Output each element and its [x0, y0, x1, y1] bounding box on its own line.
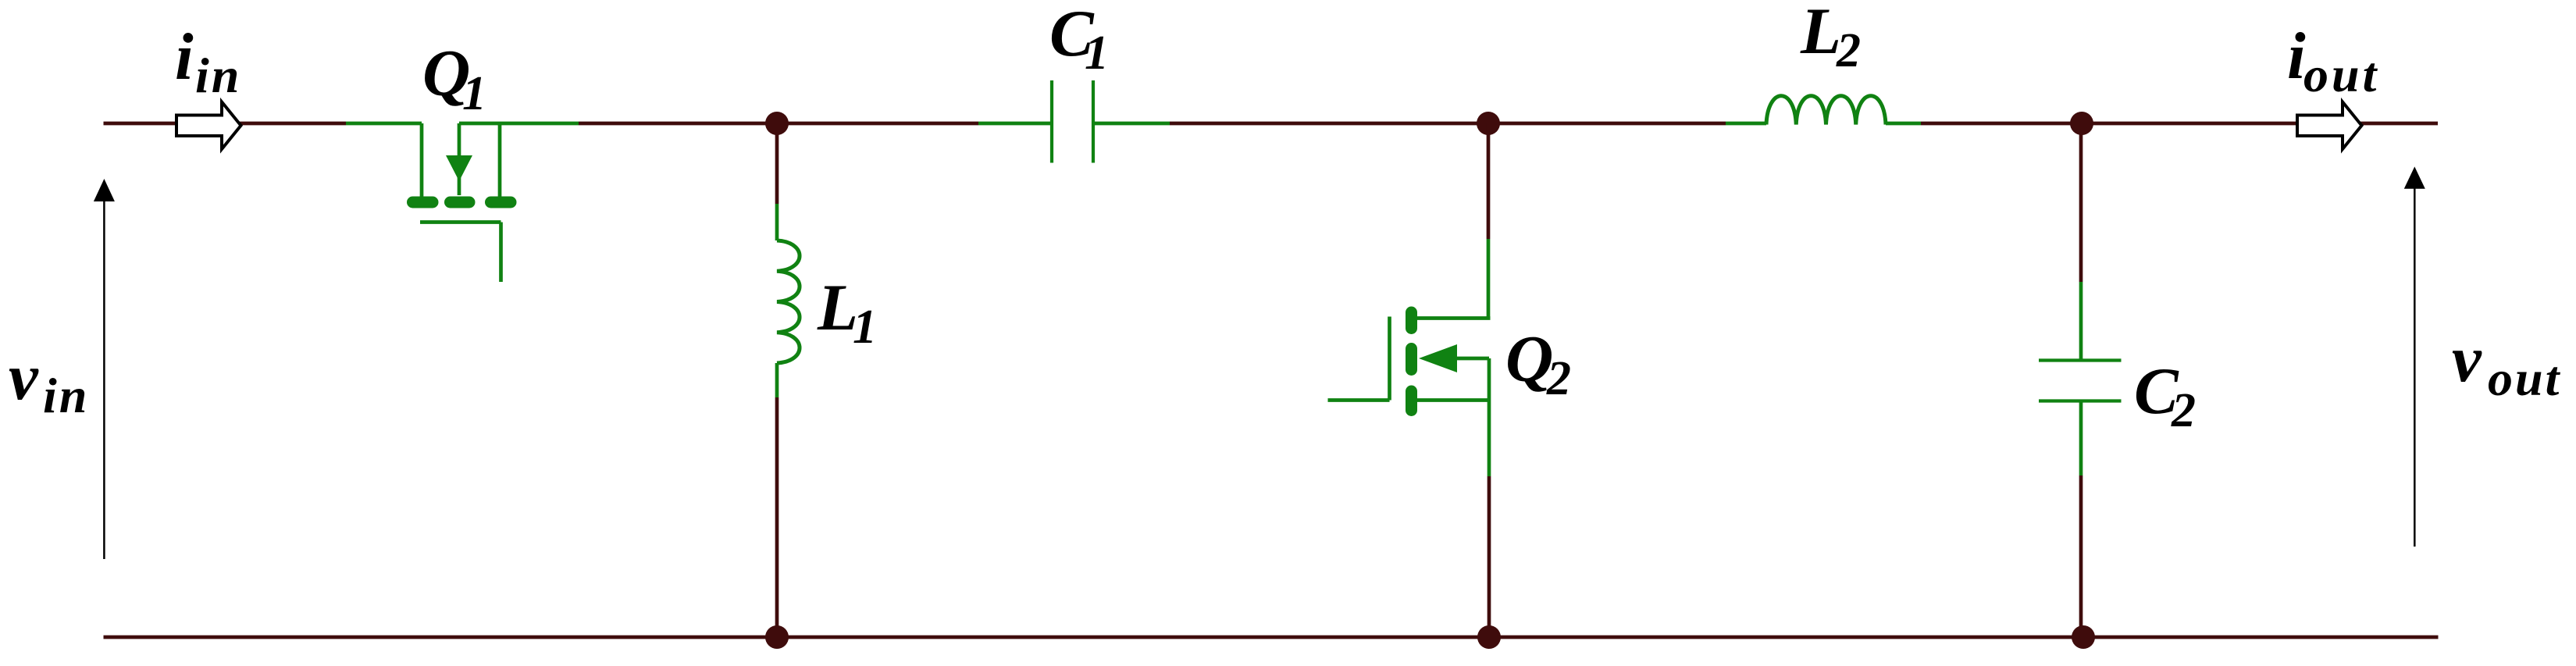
node E bottom (Q2 junction) [1477, 625, 1501, 649]
label v_out [2452, 322, 2561, 406]
wire C1 left green lead [978, 122, 1052, 126]
wire top rail L2 to node C to output [1921, 122, 2438, 126]
svg-text:i: i [175, 20, 194, 94]
label i_in [175, 20, 241, 103]
label Q2 [1505, 322, 1571, 405]
svg-text:out: out [2488, 351, 2561, 406]
svg-text:2: 2 [1836, 24, 1861, 77]
svg-text:L: L [1800, 0, 1841, 68]
node B top (Q2 junction) [1477, 112, 1500, 135]
wire top rail Q1 source green lead [459, 122, 579, 126]
wire node B down maroon [1487, 123, 1491, 239]
svg-text:v: v [2452, 322, 2482, 396]
label Q1 [422, 37, 486, 120]
svg-text:1: 1 [462, 67, 486, 120]
label C1 [1049, 0, 1109, 80]
svg-text:1: 1 [853, 301, 877, 354]
label i_out [2287, 20, 2379, 102]
wire top rail Q1 drain green lead [346, 122, 422, 126]
svg-text:1: 1 [1085, 27, 1109, 80]
capacitor C2 [2039, 282, 2122, 475]
wire L2 right green lead [1886, 122, 1921, 126]
svg-text:in: in [43, 368, 89, 423]
label v_in [9, 340, 89, 423]
wire C1 right green lead [1093, 122, 1170, 126]
node D bottom (L1 junction) [765, 625, 789, 649]
transistor Q1 [413, 123, 511, 282]
wire top rail left segment (input) [104, 122, 347, 126]
svg-text:L: L [817, 271, 858, 344]
capacitor C1 [1052, 80, 1093, 163]
wire Q2 source down maroon [1488, 476, 1491, 637]
node F bottom (C2 junction) [2072, 625, 2095, 649]
wire top rail C1 to node B to L2 [1170, 122, 1726, 126]
inductor L1 [777, 204, 800, 397]
svg-text:2: 2 [1546, 352, 1571, 405]
wire C2 bottom maroon [2079, 475, 2083, 637]
voltage arrow v_in [94, 179, 115, 559]
wire L1 bottom maroon [775, 397, 779, 637]
svg-text:2: 2 [2171, 384, 2196, 437]
current arrow i_in [176, 102, 241, 150]
node A top (L1 junction) [765, 112, 789, 135]
label L2 [1800, 0, 1861, 77]
wire top rail Q1 to node A to C1 [579, 122, 978, 126]
wire node A down maroon [775, 123, 779, 204]
wire bottom rail [104, 636, 2439, 639]
node C top (C2 junction) [2070, 112, 2093, 135]
svg-text:v: v [9, 340, 39, 414]
voltage arrow v_out [2404, 166, 2425, 547]
inductor L2 [1766, 96, 1886, 125]
label C2 [2134, 354, 2196, 437]
wire L2 left green lead [1726, 122, 1766, 126]
label L1 [817, 271, 877, 354]
transistor Q2 [1328, 239, 1491, 476]
wire node C down maroon [2079, 123, 2083, 282]
svg-text:in: in [195, 48, 241, 103]
svg-text:out: out [2303, 47, 2379, 102]
current arrow i_out [2297, 102, 2362, 150]
